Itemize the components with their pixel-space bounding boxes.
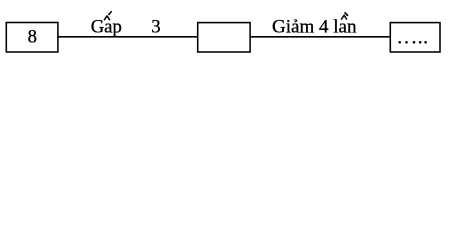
svg-text:Giảm 4 lan: Giảm 4 lan: [272, 17, 357, 38]
circumflex of ấ: [104, 16, 109, 20]
acute of ấ: [109, 12, 111, 15]
box 3 (result box): [390, 23, 440, 52]
wire: connector line from box 2 to box 3: [250, 36, 390, 38]
grave of ầ: [345, 13, 348, 16]
circumflex of ầ: [342, 15, 347, 19]
svg-text:3: 3: [151, 17, 160, 38]
dots placeholder "....." in box 3: [398, 41, 427, 44]
box 2 (middle empty box): [198, 23, 250, 52]
svg-text:8: 8: [28, 26, 37, 47]
wire: connector line from box 1 to box 2: [58, 36, 198, 38]
box 1 (input box): [6, 23, 58, 53]
svg-text:Gap: Gap: [91, 17, 122, 38]
